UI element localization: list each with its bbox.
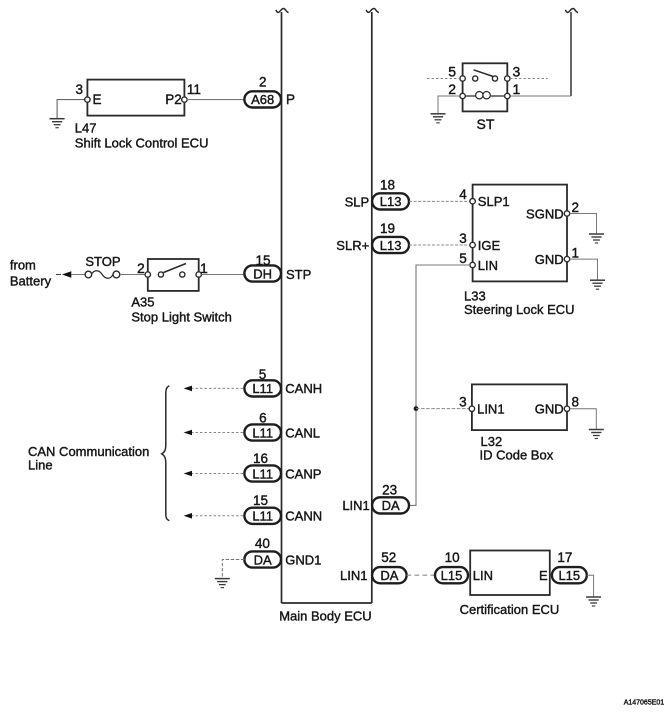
svg-text:E: E: [539, 568, 548, 583]
wire junction to L32 pin3: [416, 408, 469, 410]
Main Body ECU bottom edge wire: [282, 602, 372, 604]
svg-text:Stop Light Switch: Stop Light Switch: [131, 310, 231, 325]
connector DA pin52: [372, 567, 407, 583]
connector L13 pin18: [372, 193, 409, 209]
svg-text:LIN1: LIN1: [342, 498, 369, 513]
svg-text:3: 3: [513, 64, 521, 80]
svg-text:18: 18: [380, 178, 395, 193]
svg-text:A35: A35: [131, 295, 154, 310]
svg-text:A147065E01: A147065E01: [624, 699, 665, 706]
svg-text:3: 3: [75, 82, 83, 97]
connector L15 pin10: [435, 567, 468, 583]
svg-text:4: 4: [459, 187, 467, 202]
svg-text:GND: GND: [535, 402, 564, 417]
wire right vertical to ST pin1: [570, 12, 572, 96]
svg-text:2: 2: [572, 200, 580, 215]
svg-text:L47: L47: [75, 121, 97, 136]
connector DA GND1: [244, 551, 281, 567]
box L32: [472, 384, 567, 430]
svg-text:STOP: STOP: [85, 254, 120, 269]
wire DA52 to L15: [407, 574, 435, 576]
svg-text:CANL: CANL: [285, 425, 320, 440]
svg-text:L13: L13: [380, 194, 402, 209]
svg-text:8: 8: [572, 394, 580, 409]
fuse STOP: [85, 271, 92, 278]
wire L13 to SLP1: [409, 200, 470, 202]
svg-text:L15: L15: [558, 568, 580, 583]
wire GND to ground: [570, 259, 598, 280]
wire arrow CANP: [191, 473, 244, 475]
svg-text:DA: DA: [254, 552, 272, 567]
svg-text:23: 23: [382, 482, 397, 497]
wire ST pin1 horizontal segment: [510, 95, 571, 97]
svg-text:10: 10: [445, 550, 460, 565]
svg-text:Certification ECU: Certification ECU: [460, 602, 560, 617]
break hook right bus: [366, 9, 379, 13]
svg-text:2: 2: [137, 260, 145, 276]
svg-text:2: 2: [448, 81, 456, 97]
ground Certification: [586, 597, 601, 606]
L33 pin 5 circle: [470, 262, 475, 267]
break hook left bus: [276, 9, 289, 13]
op L47 box: [87, 80, 184, 116]
svg-text:SLR+: SLR+: [336, 238, 369, 253]
L32 pin 3 circle: [469, 406, 474, 411]
A35 contact circles: [158, 272, 163, 277]
svg-text:SLP1: SLP1: [478, 194, 510, 209]
ST switch blade: [474, 70, 495, 77]
svg-text:L11: L11: [252, 466, 273, 481]
wire L32 GND to ground: [570, 409, 597, 430]
svg-text:E: E: [93, 92, 102, 107]
svg-text:1: 1: [200, 260, 208, 276]
svg-text:Shift Lock Control ECU: Shift Lock Control ECU: [75, 136, 209, 151]
pin 3 circle L47: [85, 97, 90, 102]
wire pin 2 to ground: [438, 96, 460, 114]
relay ST box: [463, 63, 508, 111]
ST pin 1 circle: [505, 93, 510, 98]
svg-text:GND1: GND1: [285, 552, 321, 567]
ground SGND: [589, 234, 604, 243]
ground GND1: [215, 579, 230, 588]
svg-text:SGND: SGND: [526, 207, 564, 222]
battery arrow: [56, 274, 61, 276]
wire stub right of pin 3: [510, 78, 548, 80]
svg-text:6: 6: [259, 411, 267, 426]
svg-text:52: 52: [381, 550, 396, 565]
brace CAN: [162, 386, 170, 521]
svg-text:L13: L13: [380, 238, 402, 253]
svg-text:1: 1: [513, 81, 521, 97]
svg-text:DA: DA: [380, 568, 398, 583]
svg-text:5: 5: [459, 251, 467, 266]
svg-text:17: 17: [557, 550, 572, 565]
ecu L33 box: [473, 185, 567, 282]
svg-text:P: P: [286, 92, 295, 107]
svg-text:A68: A68: [251, 92, 274, 107]
wire fuse to A35: [120, 274, 145, 276]
A35 blade: [164, 264, 187, 273]
svg-text:ST: ST: [477, 116, 495, 132]
svg-text:15: 15: [253, 493, 268, 508]
L33 pin 3 circle: [470, 242, 475, 247]
svg-text:L15: L15: [441, 568, 463, 583]
connector L15 pin17: [552, 567, 587, 583]
wire stub left of pin 5: [427, 78, 460, 80]
svg-text:LIN: LIN: [473, 568, 493, 583]
svg-text:LIN1: LIN1: [477, 402, 504, 417]
wire L15 to ground: [587, 575, 594, 597]
wire arrow CANL: [191, 432, 244, 434]
svg-text:3: 3: [459, 394, 467, 409]
wire SGND to ground: [570, 214, 597, 234]
svg-text:Battery: Battery: [10, 274, 52, 289]
connector L11 CANP: [244, 465, 281, 481]
connector A68: [244, 91, 281, 107]
ST pin 2 circle: [460, 93, 465, 98]
svg-text:Line: Line: [28, 458, 53, 473]
ground ST: [431, 114, 446, 123]
L32 pin 8 circle: [564, 406, 569, 411]
junction dot LIN: [414, 406, 419, 411]
svg-text:1: 1: [572, 245, 580, 260]
svg-text:15: 15: [255, 253, 270, 268]
wire LIN down: [409, 265, 470, 505]
wire P2 to A68: [187, 99, 244, 101]
ST switch contact circles: [473, 76, 478, 81]
L33 pin 4 circle: [470, 199, 475, 204]
connector L13 pin19: [372, 237, 409, 253]
svg-text:DA: DA: [382, 498, 400, 513]
svg-text:3: 3: [459, 231, 467, 246]
svg-text:16: 16: [253, 451, 268, 466]
break hook right line: [565, 9, 578, 13]
svg-text:CANN: CANN: [285, 509, 322, 524]
ST pin 5 circle: [460, 76, 465, 81]
wire GND1 to ground: [222, 560, 244, 579]
svg-text:5: 5: [448, 64, 456, 80]
svg-text:from: from: [10, 258, 36, 273]
svg-text:L11: L11: [252, 425, 273, 440]
svg-text:CANH: CANH: [285, 381, 322, 396]
svg-text:19: 19: [380, 221, 395, 236]
svg-text:STP: STP: [286, 267, 311, 282]
A35 pin 2 circle: [145, 272, 150, 277]
svg-text:40: 40: [255, 536, 270, 551]
svg-text:ID Code Box: ID Code Box: [480, 447, 554, 462]
ST pin 3 circle: [505, 76, 510, 81]
svg-text:SLP: SLP: [345, 194, 370, 209]
wire arrow CANN: [191, 515, 244, 517]
ground L32: [589, 430, 604, 439]
svg-text:11: 11: [187, 82, 201, 97]
box Certification ECU: [470, 551, 550, 596]
svg-text:CANP: CANP: [285, 466, 321, 481]
ground GND: [590, 280, 605, 289]
ground L47: [50, 119, 65, 128]
connector DA pin23: [372, 497, 409, 513]
wire A35 to DH: [201, 274, 244, 276]
pin 11 circle L47: [182, 97, 187, 102]
svg-text:P2: P2: [165, 92, 182, 107]
switch A35 box: [148, 259, 199, 291]
svg-text:2: 2: [259, 75, 267, 90]
svg-text:5: 5: [259, 367, 267, 382]
wire L13 to IGE: [409, 244, 470, 246]
connector L11 CANL: [244, 424, 281, 440]
svg-text:DH: DH: [253, 266, 272, 281]
A35 pin 1 circle: [196, 272, 201, 277]
wire arrow CANH: [191, 387, 244, 389]
svg-text:Main Body ECU: Main Body ECU: [279, 608, 371, 623]
Main Body ECU left edge wire: [281, 12, 283, 603]
svg-text:GND: GND: [535, 252, 564, 267]
svg-text:L11: L11: [252, 381, 273, 396]
connector DH: [244, 265, 281, 281]
svg-text:L11: L11: [252, 509, 273, 524]
ST coil: [465, 95, 504, 97]
svg-text:LIN1: LIN1: [340, 568, 367, 583]
L33 pin 2 circle: [564, 211, 569, 216]
connector L11 CANH: [244, 380, 281, 396]
svg-text:LIN: LIN: [478, 258, 498, 273]
svg-text:IGE: IGE: [478, 238, 501, 253]
connector L11 CANN: [244, 508, 281, 524]
svg-text:Steering Lock ECU: Steering Lock ECU: [464, 302, 575, 317]
Main Body ECU right edge wire: [371, 12, 373, 603]
L33 pin 1 circle: [564, 256, 569, 261]
wire arrow to fuse: [72, 274, 85, 276]
wire E pin to ground: [57, 100, 87, 119]
